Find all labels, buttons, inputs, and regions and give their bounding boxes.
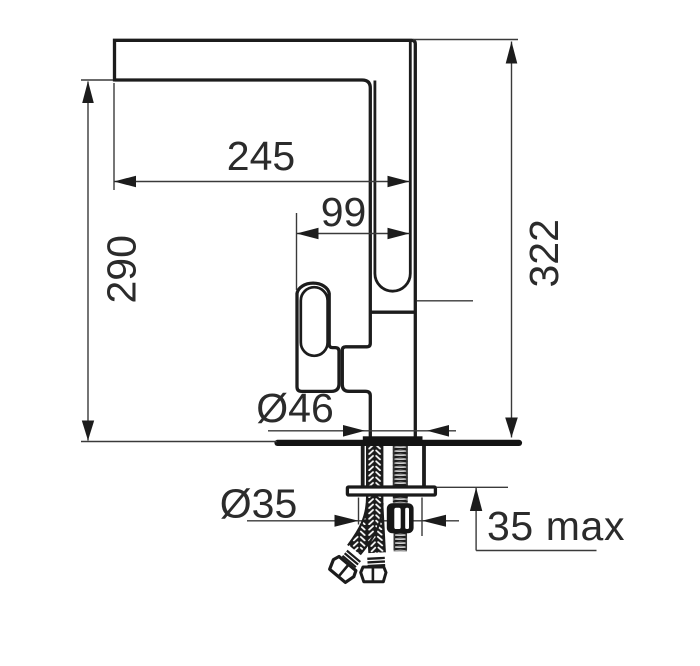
extension line for 245 at spout tip (113, 83, 115, 190)
arrowhead 99 left (297, 228, 319, 240)
flexible hose, right branch with collar rings (363, 500, 386, 567)
flexible hose, left curved branch (348, 497, 383, 555)
dimension line D46 (268, 430, 456, 432)
svg-text:322: 322 (521, 219, 567, 287)
extension line for 290 top (81, 79, 113, 81)
arrowhead D46 right (427, 425, 449, 437)
baseline under 35 max label (476, 550, 596, 552)
aerator reference tick line (417, 300, 473, 302)
svg-text:35 max: 35 max (487, 503, 625, 549)
dimension line 290 (87, 82, 89, 441)
arrowhead 322 bottom (505, 418, 518, 438)
arrowhead 99 right (388, 228, 410, 240)
threaded mounting stud, upper section (393, 444, 408, 487)
hose left branch collar rings and hex nut (327, 544, 367, 585)
right shank edge below counter (422, 444, 426, 487)
handle lever inner contour (301, 287, 328, 356)
arrowhead 35 max up (470, 488, 482, 512)
dimension line D35 middle segment behind parts (359, 520, 423, 522)
threaded mounting stud, lower end (394, 532, 407, 552)
left shank edge below counter (361, 444, 365, 487)
extension line for 322 at spout top (413, 39, 518, 41)
body joint line (371, 311, 416, 314)
arrowhead D35 left (335, 515, 359, 527)
dimension line 245 (114, 181, 410, 183)
svg-text:Ø35: Ø35 (220, 481, 298, 527)
threaded mounting stud, slice between plate and nut (393, 497, 408, 505)
extension line for D35 left (358, 498, 360, 525)
mounting hex nut on stud (387, 503, 414, 533)
extension line for D35 right (421, 498, 423, 537)
arrowhead 290 top (82, 81, 94, 103)
arrowhead 290 bottom (82, 421, 94, 441)
spout top edge and body right edge (115, 40, 416, 436)
arrowhead D35 right (422, 515, 446, 527)
countertop surface line (278, 440, 520, 446)
dimension line D35 left part (247, 520, 359, 522)
svg-text:99: 99 (321, 189, 367, 235)
flexible hose, straight braided column (367, 444, 382, 506)
dimension line 322 (511, 42, 513, 438)
svg-text:290: 290 (99, 235, 145, 303)
dimension line 99 (297, 233, 410, 235)
faucet base flange (363, 436, 423, 441)
mounting bracket plate (347, 487, 435, 495)
hose right branch hex nut (361, 567, 386, 582)
spout bottom edge, body left edge, valve step and base (115, 80, 371, 437)
dimension line D35 right part (422, 520, 459, 522)
arrowhead D46 left (343, 425, 365, 437)
extension line for 99 at handle (296, 213, 298, 290)
arrowhead 245 right (388, 176, 410, 188)
svg-text:245: 245 (227, 133, 295, 179)
svg-text:Ø46: Ø46 (256, 385, 334, 431)
arrowhead 245 left (114, 176, 136, 188)
reference line for 35 max at plate (437, 486, 509, 488)
arrowhead 322 top (506, 42, 518, 64)
pull-out spray U-shaped seam (375, 41, 410, 291)
handle lever outer contour and base block (297, 283, 339, 391)
extension line for 290 bottom at countertop (81, 441, 277, 443)
dimension line 35 max (475, 488, 477, 551)
